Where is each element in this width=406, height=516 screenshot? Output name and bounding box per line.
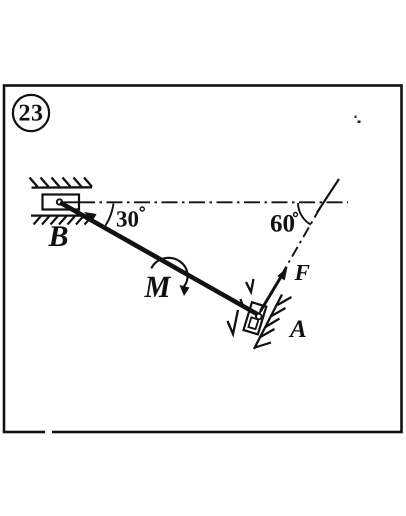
svg-text:60: 60 — [270, 211, 295, 238]
svg-text:23: 23 — [19, 101, 44, 127]
moment arc M — [151, 258, 187, 289]
lower wall at B — [31, 214, 84, 216]
svg-text:M: M — [144, 269, 172, 304]
horizontal dash-dot axis line — [63, 201, 80, 203]
label 60deg — [270, 211, 298, 238]
scan gap in bottom border — [45, 430, 52, 435]
right slot wall hatching — [255, 297, 292, 348]
upper wall at B — [32, 186, 93, 189]
pin circle at B — [57, 199, 62, 204]
arrowhead on bar near B — [84, 212, 97, 222]
right slot wall at A — [254, 295, 282, 350]
svg-text:F: F — [294, 260, 310, 285]
pin circle at A — [256, 314, 262, 320]
slider block B — [43, 195, 80, 210]
problem number badge circle 23 — [13, 95, 49, 131]
slider block A (rotated) — [243, 302, 266, 334]
inclined guide axis: solid upper segment — [317, 179, 339, 213]
30 degree arc — [106, 204, 114, 226]
force F arrowhead — [277, 267, 287, 280]
lower wall hatching — [34, 216, 93, 225]
border frame — [4, 86, 402, 433]
upper wall hatching — [30, 178, 93, 187]
svg-text:30: 30 — [116, 207, 139, 232]
label 30deg — [116, 207, 144, 232]
60 degree arc — [298, 203, 311, 225]
left slot hatching chevron — [228, 279, 254, 334]
moment arrowhead — [180, 285, 190, 296]
force F arrow shaft — [261, 274, 284, 312]
svg-text:B: B — [48, 220, 69, 253]
speck artifact — [355, 116, 361, 124]
svg-text:A: A — [288, 316, 307, 343]
bar BA — [60, 203, 258, 315]
inclined dash-dot axis down to A — [259, 208, 320, 314]
